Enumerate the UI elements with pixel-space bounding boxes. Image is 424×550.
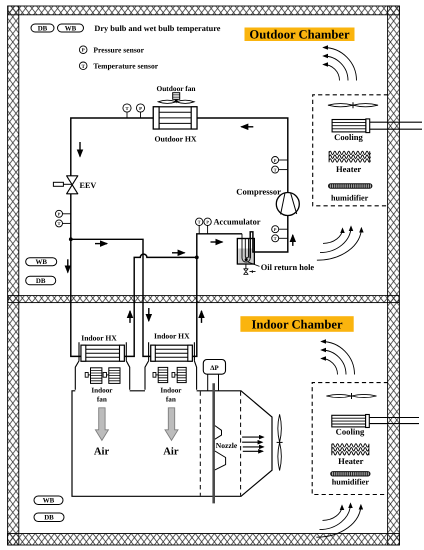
svg-text:Pressure sensor: Pressure sensor bbox=[93, 45, 144, 54]
outdoor HX label bbox=[154, 134, 196, 143]
svg-text:Outdoor HX: Outdoor HX bbox=[154, 134, 196, 143]
legend pressure sensor symbol bbox=[79, 45, 144, 54]
svg-text:T: T bbox=[274, 167, 277, 172]
svg-text:WB: WB bbox=[65, 25, 77, 32]
outdoor HX bbox=[153, 107, 197, 129]
pipe main down to indoor HX1 bbox=[71, 239, 82, 356]
indoor fan1 motor pair bbox=[85, 368, 120, 384]
svg-text:Indoor HX: Indoor HX bbox=[154, 332, 190, 341]
svg-text:T: T bbox=[198, 220, 201, 225]
indoor HX1 bbox=[81, 345, 124, 361]
compressor label bbox=[236, 186, 281, 196]
svg-text:Indoor HX: Indoor HX bbox=[81, 333, 117, 342]
flow arrow into accumulator bbox=[211, 241, 223, 243]
airflow arcs indoor bottom bbox=[316, 504, 361, 538]
svg-text:fan: fan bbox=[166, 396, 176, 404]
legend pill DB bbox=[31, 24, 54, 32]
nozzle profile upper bbox=[215, 426, 222, 440]
flow arrow toward outdoor HX bbox=[241, 126, 253, 128]
flow arrow on return line bbox=[172, 252, 185, 254]
DB pill indoor bottom bbox=[34, 513, 64, 522]
temperature sensor at discharge bbox=[272, 166, 288, 173]
svg-text:DB: DB bbox=[36, 278, 46, 285]
outdoor unit fan bbox=[328, 102, 378, 108]
air duct box bbox=[72, 391, 272, 497]
flow arrow down into indoor chamber bbox=[67, 259, 69, 272]
svg-text:Air: Air bbox=[94, 447, 110, 458]
pressure sensor below EEV bbox=[56, 210, 71, 217]
flow arrow down to EEV bbox=[79, 142, 81, 157]
duct exhaust fan bbox=[277, 414, 283, 470]
svg-text:Oil return hole: Oil return hole bbox=[261, 263, 315, 272]
duct dashed screen left bbox=[199, 391, 201, 495]
indoor unit fan bbox=[326, 393, 376, 399]
airflow arcs outdoor top bbox=[324, 48, 357, 81]
label Indoor Chamber bbox=[240, 316, 353, 332]
temperature sensor before accumulator bbox=[196, 218, 203, 234]
svg-text:P: P bbox=[139, 106, 142, 111]
discharge pipe compressor to HX bbox=[197, 118, 288, 193]
svg-text:Cooling: Cooling bbox=[336, 427, 365, 437]
outdoor unit cooling coil bbox=[332, 119, 422, 133]
airflow arcs indoor top bbox=[322, 342, 355, 375]
svg-text:Indoor: Indoor bbox=[91, 386, 113, 394]
svg-text:Cooling: Cooling bbox=[334, 132, 363, 142]
junction node suction bbox=[195, 256, 199, 260]
svg-text:T: T bbox=[58, 221, 61, 226]
duct dashed screen right bbox=[240, 391, 242, 495]
nozzle label bbox=[216, 441, 238, 450]
flow arrow down to HX2 bbox=[148, 308, 150, 321]
svg-text:WB: WB bbox=[43, 498, 55, 505]
wall right band bbox=[388, 6, 400, 545]
outdoor heater label bbox=[336, 164, 361, 174]
indoor heater label bbox=[338, 456, 363, 466]
indoor fan2 motor pair bbox=[153, 367, 186, 382]
pressure sensor at suction bbox=[272, 226, 288, 233]
wall top band bbox=[8, 6, 399, 15]
wall left band bbox=[8, 6, 19, 545]
indoor HX2 frame brackets bbox=[149, 342, 195, 361]
air arrow 1 bbox=[95, 408, 108, 441]
svg-text:Air: Air bbox=[163, 447, 179, 458]
flow arrow up from HX1 bbox=[129, 311, 131, 323]
oil return valve bbox=[244, 264, 256, 274]
svg-text:WB: WB bbox=[35, 259, 47, 266]
WB pill outdoor lower left bbox=[26, 258, 57, 266]
indoor HX2 bbox=[151, 345, 193, 361]
svg-text:DB: DB bbox=[38, 25, 48, 32]
outdoor conditioning unit dashed enclosure bbox=[313, 95, 388, 206]
svg-text:EEV: EEV bbox=[80, 181, 97, 190]
outdoor fan label bbox=[156, 84, 195, 93]
air label 1 bbox=[94, 447, 110, 458]
temperature sensor below EEV bbox=[56, 220, 71, 227]
airflow arcs outdoor bottom bbox=[317, 227, 362, 261]
pipe branch to indoor HX2 bbox=[71, 239, 151, 356]
svg-text:P: P bbox=[274, 227, 277, 232]
label Outdoor Chamber bbox=[245, 27, 355, 41]
svg-text:humidifier: humidifier bbox=[331, 194, 369, 203]
legend text dry/wet bulb bbox=[94, 24, 220, 33]
pipe EEV down to junction bbox=[70, 194, 72, 240]
indoor HX1 label bbox=[81, 333, 117, 342]
flow arrow on branch bbox=[95, 243, 107, 245]
nozzle outlet flow arrows bbox=[242, 437, 263, 451]
accumulator label bbox=[214, 217, 261, 226]
indoor unit cooling coil bbox=[332, 415, 419, 428]
indoor unit humidifier bbox=[331, 472, 370, 476]
suction pipe accumulator to compressor bbox=[250, 216, 288, 259]
EEV label bbox=[80, 181, 97, 190]
nozzle plate bbox=[212, 383, 215, 503]
pressure sensor before accumulator bbox=[204, 218, 211, 234]
svg-text:T: T bbox=[125, 106, 128, 111]
indoor HX1 frame brackets bbox=[79, 342, 126, 361]
svg-text:DB: DB bbox=[44, 515, 54, 522]
svg-text:Nozzle: Nozzle bbox=[216, 441, 238, 450]
svg-text:Accumulator: Accumulator bbox=[214, 217, 261, 226]
outdoor fan motor bbox=[173, 93, 180, 100]
outdoor fan blades bbox=[158, 100, 194, 104]
air label 2 bbox=[163, 447, 179, 458]
outdoor unit heater bbox=[329, 151, 370, 162]
svg-text:Heater: Heater bbox=[338, 456, 363, 466]
svg-text:P: P bbox=[82, 48, 85, 54]
wall middle band separating chambers bbox=[8, 296, 399, 303]
outdoor humidifier label bbox=[331, 194, 369, 203]
svg-text:Dry bulb and wet bulb temperat: Dry bulb and wet bulb temperature bbox=[94, 24, 220, 33]
svg-text:P: P bbox=[58, 212, 61, 217]
legend temperature sensor symbol bbox=[79, 62, 158, 71]
svg-text:Indoor Chamber: Indoor Chamber bbox=[251, 317, 342, 331]
oil return hole label bbox=[248, 262, 314, 272]
indoor HX2 label bbox=[154, 332, 190, 341]
indoor HX1 funnel housing bbox=[75, 361, 129, 390]
svg-text:Compressor: Compressor bbox=[236, 186, 281, 196]
wall bottom band bbox=[8, 534, 400, 546]
svg-text:Outdoor fan: Outdoor fan bbox=[156, 84, 195, 93]
nozzle profile lower bbox=[215, 451, 226, 470]
accumulator vessel bbox=[237, 234, 254, 264]
indoor cooling label bbox=[336, 427, 365, 437]
air arrow 2 bbox=[165, 408, 178, 441]
outdoor unit humidifier bbox=[329, 184, 372, 189]
legend pill WB bbox=[58, 24, 84, 32]
EEV valve bbox=[53, 176, 77, 194]
return pipe from HX2 bbox=[192, 257, 197, 356]
indoor HX2 funnel housing bbox=[145, 361, 197, 390]
temperature sensor at suction bbox=[272, 235, 288, 242]
flow arrow up to compressor bbox=[292, 235, 294, 246]
junction node at EEV branch bbox=[69, 237, 73, 241]
pressure sensor on liquid line bbox=[136, 104, 144, 118]
svg-text:Heater: Heater bbox=[336, 164, 361, 174]
pressure sensor at discharge bbox=[272, 157, 288, 164]
indoor unit heater bbox=[332, 444, 369, 456]
temperature sensor on liquid line bbox=[123, 104, 131, 118]
svg-text:P: P bbox=[274, 158, 277, 163]
outdoor cooling label bbox=[334, 132, 363, 142]
pipe HX-left to EEV bbox=[71, 118, 154, 176]
indoor fan2 label bbox=[160, 386, 182, 403]
differential pressure sensor dP bbox=[203, 360, 225, 391]
svg-text:fan: fan bbox=[97, 396, 107, 404]
WB pill indoor bottom bbox=[34, 496, 63, 505]
suction riser to accumulator bbox=[197, 234, 242, 258]
indoor humidifier label bbox=[332, 477, 370, 486]
flow arrow up from HX2 bbox=[201, 311, 203, 323]
compressor bbox=[276, 193, 299, 216]
indoor fan1 label bbox=[91, 386, 113, 403]
return pipe from HX1 with crossover hop bbox=[124, 254, 197, 356]
svg-text:P: P bbox=[206, 220, 209, 225]
svg-text:Outdoor Chamber: Outdoor Chamber bbox=[249, 27, 350, 41]
svg-text:ΔP: ΔP bbox=[210, 365, 218, 372]
svg-text:Temperature sensor: Temperature sensor bbox=[93, 62, 158, 71]
svg-text:Indoor: Indoor bbox=[160, 386, 182, 394]
svg-text:T: T bbox=[274, 236, 277, 241]
svg-text:humidifier: humidifier bbox=[332, 477, 370, 486]
DB pill outdoor lower left bbox=[26, 276, 56, 285]
indoor conditioning unit dashed enclosure bbox=[312, 383, 388, 495]
